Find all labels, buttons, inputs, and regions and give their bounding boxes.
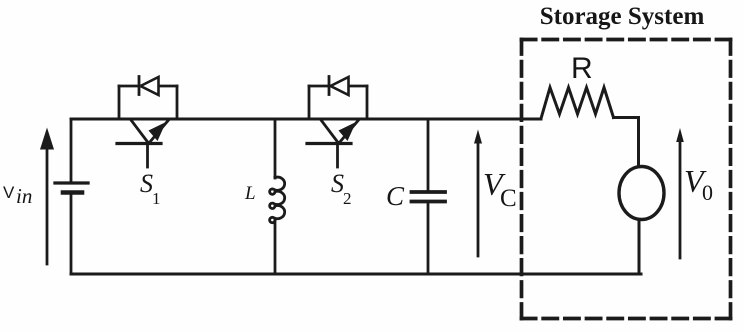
svg-text:C: C xyxy=(500,185,517,212)
svg-text:C: C xyxy=(386,181,405,211)
arrow VC xyxy=(474,130,482,257)
label S1 xyxy=(140,169,161,208)
svg-text:in: in xyxy=(16,184,32,208)
svg-text:V: V xyxy=(3,183,15,202)
node S1 left stub xyxy=(118,86,121,119)
transistor S2 base bar xyxy=(307,142,351,145)
transistor S1 gate lead xyxy=(146,144,149,168)
transistor S1 base bar xyxy=(117,142,161,145)
storage system dashed box left edge xyxy=(520,40,524,319)
node S2 left stub xyxy=(308,86,311,119)
node S1 right stub xyxy=(176,86,179,119)
wire diode D2 top xyxy=(309,85,367,88)
label V0 xyxy=(684,163,713,205)
capacitor C bottom plate xyxy=(412,200,446,204)
diode D1 triangle xyxy=(141,77,159,95)
battery Vin short plate xyxy=(63,190,82,195)
inductor L coil xyxy=(270,177,285,223)
wire bottom bus xyxy=(71,273,641,276)
transistor S2 emitter xyxy=(339,120,359,144)
label Storage System title xyxy=(540,3,705,30)
svg-text:2: 2 xyxy=(343,189,352,208)
node S2 right stub xyxy=(366,86,369,119)
transistor S1 emitter arrow xyxy=(149,122,167,141)
wire battery top lead xyxy=(70,119,73,182)
wire capacitor top lead xyxy=(427,119,430,191)
svg-text:Storage System: Storage System xyxy=(540,3,705,30)
svg-text:L: L xyxy=(244,183,256,204)
wire inductor top lead xyxy=(274,119,277,178)
wire diode D1 top xyxy=(119,85,177,88)
label S2 xyxy=(331,169,352,208)
svg-text:0: 0 xyxy=(702,180,713,205)
svg-text:R: R xyxy=(571,52,593,85)
storage system dashed box right edge xyxy=(729,40,733,319)
wire top bus xyxy=(71,118,541,121)
transistor S2 collector xyxy=(321,120,338,143)
arrow V0 xyxy=(676,128,684,258)
wire inductor bottom lead xyxy=(274,220,277,274)
arrow Vin xyxy=(40,128,54,265)
transistor S1 emitter xyxy=(149,120,169,144)
transistor S2 emitter arrow xyxy=(339,122,357,141)
label VC xyxy=(483,166,517,212)
source V0 circle xyxy=(619,167,664,220)
resistor R zigzag xyxy=(541,88,614,119)
storage system dashed box top edge xyxy=(522,38,731,42)
diode D1 cathode bar xyxy=(138,77,141,95)
wire resistor to corner xyxy=(614,118,639,166)
wire capacitor bottom lead xyxy=(427,203,430,274)
storage system dashed box bottom edge xyxy=(522,317,731,321)
diode D2 triangle xyxy=(331,77,349,95)
capacitor C top plate xyxy=(412,190,446,194)
label Vin xyxy=(3,183,32,208)
label C xyxy=(386,181,405,211)
battery Vin long plate xyxy=(55,181,88,184)
wire battery bottom lead xyxy=(70,195,73,274)
transistor S2 gate lead xyxy=(336,144,339,168)
wire source bottom lead xyxy=(638,221,641,275)
label L xyxy=(244,183,256,204)
svg-text:1: 1 xyxy=(152,189,161,208)
label R xyxy=(571,52,593,85)
transistor S1 collector xyxy=(131,120,148,143)
diode D2 cathode bar xyxy=(328,77,331,95)
